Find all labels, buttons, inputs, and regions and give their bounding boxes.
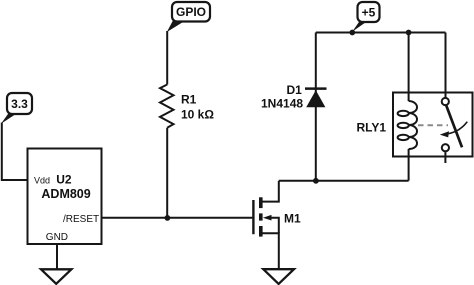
wire 3.3 to U2 Vdd pin — [2, 123, 28, 181]
transistor M1 (NMOS) — [253, 181, 301, 270]
svg-text:/RESET: /RESET — [63, 214, 99, 225]
svg-text:3.3: 3.3 — [11, 97, 28, 111]
svg-text:M1: M1 — [284, 211, 301, 225]
relay contact (bottom) — [442, 144, 449, 151]
junction +5 tie — [349, 30, 355, 36]
resistor R1 — [160, 85, 214, 128]
node +5 (net flag) — [352, 2, 379, 32]
node 3.3 (net flag) — [1, 93, 32, 124]
svg-text:RLY1: RLY1 — [357, 121, 387, 135]
relay switch blade — [446, 106, 462, 148]
wire coil bottom — [408, 149, 410, 181]
svg-text:Vdd: Vdd — [34, 175, 50, 185]
ground (M1 source) — [263, 269, 294, 284]
svg-text:ADM809: ADM809 — [41, 187, 90, 201]
svg-text:GND: GND — [46, 232, 68, 243]
svg-text:10 kΩ: 10 kΩ — [181, 108, 214, 122]
relay RLY1 body — [357, 93, 473, 157]
wire coil top — [408, 33, 410, 102]
diode D1 1N4148 — [261, 83, 327, 111]
junction D1/drain — [313, 178, 319, 184]
wire drain node (M1 drain / D1 / coil) — [279, 180, 409, 182]
svg-text:1N4148: 1N4148 — [261, 97, 303, 111]
svg-text:+5: +5 — [362, 6, 376, 20]
junction R1//RESET — [165, 215, 171, 221]
relay actuation arrow — [440, 122, 468, 138]
wire U2 GND pin — [56, 244, 58, 269]
ground (U2) — [41, 269, 71, 284]
svg-text:GPIO: GPIO — [176, 5, 206, 19]
svg-text:D1: D1 — [287, 83, 303, 97]
svg-text:R1: R1 — [181, 93, 197, 107]
wire R1 to gate net — [166, 128, 168, 218]
wire normally-open stub — [444, 151, 446, 163]
relay linkage (dashed) — [418, 124, 448, 126]
relay coil — [398, 101, 417, 149]
node GPIO (net flag) — [167, 2, 210, 32]
wire /RESET to M1 gate — [102, 217, 254, 219]
junction coil branch — [406, 30, 412, 36]
svg-text:U2: U2 — [56, 172, 72, 186]
wire +5 rail — [316, 32, 446, 34]
wire switch common — [445, 33, 447, 98]
relay contact (top) — [442, 98, 449, 105]
wire D1 branch — [315, 33, 317, 181]
wire GPIO to R1 — [166, 31, 168, 85]
IC U2 ADM809 — [28, 149, 102, 245]
